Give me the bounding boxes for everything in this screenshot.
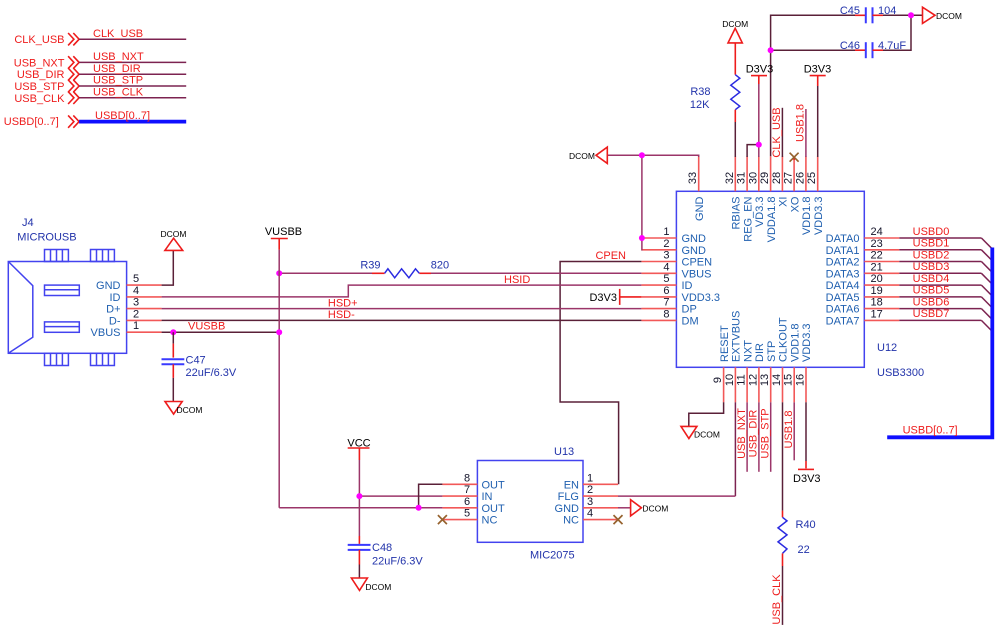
- svg-text:DATA2: DATA2: [826, 257, 860, 269]
- svg-text:ID: ID: [110, 292, 121, 304]
- U12 pin 5 ID: [641, 273, 692, 292]
- wire C46 right up to C45: [883, 15, 911, 50]
- svg-text:EXTVBUS: EXTVBUS: [731, 311, 743, 362]
- svg-text:1: 1: [587, 472, 593, 484]
- U12 pin 17 DATA7: [826, 308, 900, 327]
- svg-text:6: 6: [663, 285, 669, 297]
- svg-text:USB_STP: USB_STP: [760, 408, 772, 458]
- U12 pin 8 DM: [641, 308, 698, 327]
- svg-text:3: 3: [133, 297, 139, 309]
- svg-text:STP: STP: [766, 341, 778, 362]
- svg-text:3: 3: [663, 250, 669, 262]
- svg-text:VUSBB: VUSBB: [265, 226, 302, 238]
- svg-text:USB1.8: USB1.8: [783, 411, 795, 449]
- bus USBD[0..7] right: [887, 248, 992, 438]
- svg-text:4: 4: [133, 285, 139, 297]
- svg-text:D+: D+: [106, 304, 120, 316]
- ground DCOM right arrow top: [923, 7, 962, 23]
- wire C47 to DCOM: [172, 364, 174, 401]
- svg-text:USBD2: USBD2: [913, 249, 950, 261]
- wire VDDA1.8 pin29 vertical: [771, 15, 855, 156]
- U12 pin 20 DATA4: [826, 273, 900, 292]
- wire USBD0: [899, 226, 992, 249]
- U12 pin 6 VDD3.3: [641, 285, 720, 304]
- resistor R39 820: [360, 260, 449, 278]
- svg-text:D3V3: D3V3: [589, 292, 617, 304]
- power D3V3 top right: [804, 64, 832, 86]
- wire USBD1: [899, 238, 992, 261]
- U12 pin 32 RBIAS: [724, 156, 743, 229]
- svg-text:USBD3: USBD3: [913, 261, 950, 273]
- wire VCC to C48: [358, 536, 360, 544]
- svg-text:32: 32: [724, 172, 736, 184]
- resistor R38 12K: [690, 43, 740, 122]
- no-connect X at U13 pin4: [614, 515, 623, 524]
- power D3V3 at pin16: [793, 402, 821, 485]
- wire net USB_STP: [79, 75, 186, 87]
- svg-text:5: 5: [133, 273, 139, 285]
- wire D3V3 to pin30: [758, 84, 760, 157]
- ground DCOM above R38: [722, 19, 748, 43]
- wire DCOM net to pin33: [607, 155, 698, 250]
- svg-text:USB_STP: USB_STP: [93, 75, 143, 87]
- svg-text:USBD7: USBD7: [913, 308, 950, 320]
- wire C46 branch: [771, 49, 855, 51]
- svg-text:USBD[0..7]: USBD[0..7]: [4, 116, 59, 128]
- wire USBD3: [899, 261, 992, 284]
- svg-text:HSID: HSID: [504, 274, 530, 286]
- power VUSBB symbol: [265, 226, 302, 250]
- wire USB_NXT net at pin11: [736, 402, 748, 472]
- port USB_STP: [14, 80, 79, 93]
- wire HSD- net (J4 D- to pin8 DM): [162, 309, 642, 321]
- svg-text:NC: NC: [482, 515, 498, 527]
- wire net CLK_USB: [79, 28, 186, 40]
- svg-text:USB_DIR: USB_DIR: [93, 63, 141, 75]
- U13 pin 8 OUT: [442, 472, 505, 491]
- no-connect X at U13 pin5: [438, 515, 447, 524]
- svg-text:2: 2: [587, 484, 593, 496]
- J4 pin 3 D+: [106, 297, 161, 316]
- svg-text:USBD4: USBD4: [913, 273, 950, 285]
- svg-text:GND: GND: [96, 280, 121, 292]
- svg-text:26: 26: [794, 172, 806, 184]
- U13 pin 7 IN: [442, 484, 492, 503]
- svg-text:DM: DM: [682, 315, 699, 327]
- port USB_NXT: [14, 56, 79, 69]
- svg-text:CLK_USB: CLK_USB: [93, 28, 143, 40]
- U12 pin 13 STP: [759, 341, 778, 403]
- svg-text:XI: XI: [778, 197, 790, 207]
- U12 pin 3 CPEN: [641, 250, 712, 269]
- svg-text:R39: R39: [360, 260, 380, 272]
- svg-text:XO: XO: [789, 196, 801, 212]
- svg-text:RBIAS: RBIAS: [731, 197, 743, 230]
- svg-text:22uF/6.3V: 22uF/6.3V: [186, 367, 237, 379]
- svg-text:17: 17: [871, 308, 883, 320]
- U12 pin 19 DATA5: [826, 285, 900, 304]
- svg-text:ID: ID: [682, 280, 693, 292]
- svg-text:VDD3.3: VDD3.3: [813, 197, 825, 236]
- ground DCOM below C48: [351, 578, 391, 592]
- svg-text:20: 20: [871, 273, 883, 285]
- svg-text:GND: GND: [555, 503, 580, 515]
- svg-text:10: 10: [724, 374, 736, 386]
- capacitor C47 22uF/6.3V: [162, 355, 237, 379]
- wire VCC vertical: [358, 460, 360, 536]
- svg-text:USBD5: USBD5: [913, 285, 950, 297]
- svg-text:U12: U12: [877, 342, 897, 354]
- U12 pin 33 GND: [687, 156, 706, 221]
- wire net USB_CLK: [79, 87, 186, 99]
- svg-text:GND: GND: [682, 233, 707, 245]
- port USBD[0..7]: [4, 115, 79, 128]
- ground DCOM below C47: [165, 402, 202, 416]
- svg-text:USB_CLK: USB_CLK: [14, 93, 65, 105]
- svg-text:CPEN: CPEN: [682, 257, 713, 269]
- wire VUSBB to R39: [279, 272, 372, 274]
- junction REG_EN/D3V3: [756, 142, 762, 148]
- wire USBD2: [899, 249, 992, 272]
- svg-text:NC: NC: [563, 515, 579, 527]
- port CLK_USB: [14, 33, 79, 46]
- svg-text:DCOM: DCOM: [177, 405, 203, 415]
- svg-text:MICROUSB: MICROUSB: [17, 232, 76, 244]
- wire D3V3 to pin25: [817, 86, 819, 157]
- svg-text:DATA1: DATA1: [826, 245, 860, 257]
- svg-text:DCOM: DCOM: [642, 504, 668, 514]
- U12 pin 23 DATA1: [826, 238, 900, 257]
- svg-text:DCOM: DCOM: [161, 229, 187, 239]
- svg-text:2: 2: [133, 308, 139, 320]
- svg-text:USBD6: USBD6: [913, 296, 950, 308]
- U12 pin 2 GND: [641, 238, 706, 257]
- U12 pin 24 DATA0: [826, 226, 900, 245]
- svg-text:USB1.8: USB1.8: [795, 104, 807, 142]
- junction OUT: [416, 505, 422, 511]
- wire J4 GND to DCOM: [162, 250, 174, 285]
- svg-text:1: 1: [133, 320, 139, 332]
- svg-text:24: 24: [871, 226, 883, 238]
- svg-text:USB_NXT: USB_NXT: [736, 408, 748, 459]
- svg-text:CLKOUT: CLKOUT: [778, 317, 790, 362]
- U12 pin 7 DP: [641, 297, 696, 316]
- svg-text:VDD1.8: VDD1.8: [801, 197, 813, 236]
- U12 pin 11 NXT: [736, 340, 755, 403]
- svg-text:23: 23: [871, 238, 883, 250]
- U13 pin 6 OUT: [442, 496, 505, 515]
- U12 pin 14 CLKOUT: [771, 317, 790, 402]
- capacitor C46 4.7uF: [840, 40, 907, 58]
- svg-text:USBD[0..7]: USBD[0..7]: [95, 110, 150, 122]
- svg-text:8: 8: [464, 472, 470, 484]
- U12 pin 16 VDD3.3: [795, 323, 814, 402]
- svg-text:VBUS: VBUS: [91, 327, 121, 339]
- svg-text:31: 31: [736, 172, 748, 184]
- svg-text:DATA7: DATA7: [826, 315, 860, 327]
- bus USBD[0..7] top-left: [79, 110, 186, 122]
- U12 pin 9 RESET: [712, 325, 731, 402]
- svg-text:FLG: FLG: [558, 491, 579, 503]
- svg-text:D-: D-: [109, 315, 121, 327]
- svg-text:REG_EN: REG_EN: [742, 196, 754, 241]
- junction C45/C46: [908, 12, 914, 18]
- power D3V3 top left: [746, 64, 774, 84]
- junction pin29/C46: [768, 47, 774, 53]
- svg-text:33: 33: [687, 172, 699, 184]
- svg-text:CLK_USB: CLK_USB: [14, 34, 64, 46]
- svg-text:5: 5: [663, 273, 669, 285]
- wire VCC to U13 IN: [359, 495, 442, 497]
- svg-text:14: 14: [771, 374, 783, 386]
- U13 pin 3 GND: [555, 496, 618, 515]
- ground DCOM at U13 GND: [618, 500, 668, 516]
- J4 pin 5 GND: [96, 273, 162, 292]
- svg-text:DATA0: DATA0: [826, 233, 860, 245]
- svg-text:7: 7: [464, 484, 470, 496]
- port USB_CLK: [14, 92, 79, 105]
- svg-text:12K: 12K: [690, 99, 710, 111]
- svg-text:1: 1: [663, 226, 669, 238]
- svg-text:USB_CLK: USB_CLK: [771, 574, 783, 625]
- svg-text:DIR: DIR: [754, 343, 766, 362]
- ground DCOM below pin9: [681, 426, 720, 439]
- svg-text:22: 22: [798, 544, 810, 556]
- svg-text:13: 13: [759, 374, 771, 386]
- svg-text:VDDA1.8: VDDA1.8: [766, 197, 778, 243]
- svg-text:30: 30: [747, 172, 759, 184]
- ground DCOM left arrow: [569, 147, 607, 163]
- port USB_DIR: [17, 68, 79, 81]
- wire USBD6: [899, 296, 992, 319]
- U12 pin 18 DATA6: [826, 297, 900, 316]
- svg-text:MIC2075: MIC2075: [530, 550, 575, 562]
- svg-text:D3V3: D3V3: [804, 64, 832, 76]
- resistor R40 22: [778, 511, 816, 566]
- wire VUSBB vertical: [278, 250, 280, 508]
- svg-text:RESET: RESET: [719, 325, 731, 362]
- junction VCC: [356, 493, 362, 499]
- svg-text:DATA6: DATA6: [826, 304, 860, 316]
- wire VUSBB to U13 OUT: [279, 507, 442, 509]
- svg-text:18: 18: [871, 297, 883, 309]
- svg-text:16: 16: [795, 374, 807, 386]
- U12 pin 26 VDD1.8: [794, 156, 813, 235]
- svg-text:21: 21: [871, 261, 883, 273]
- wire HSD+ net (J4 D+ to pin7 DP): [162, 297, 642, 309]
- svg-text:USB3300: USB3300: [877, 367, 924, 379]
- junction VUSBB/VBUS: [276, 329, 282, 335]
- svg-text:8: 8: [663, 308, 669, 320]
- U12 pin 22 DATA2: [826, 250, 900, 269]
- svg-text:DCOM: DCOM: [936, 11, 962, 21]
- ground DCOM up arrow at J4: [161, 229, 187, 250]
- no-connect X at pin27 XO: [790, 153, 799, 162]
- svg-text:25: 25: [806, 172, 818, 184]
- capacitor C45 104: [840, 5, 897, 23]
- svg-text:2: 2: [663, 238, 669, 250]
- svg-text:C46: C46: [840, 40, 860, 52]
- wire USB_STP net at pin13: [760, 402, 772, 472]
- svg-text:4: 4: [587, 508, 593, 520]
- svg-text:11: 11: [736, 374, 748, 385]
- U12 pin 27 XO: [783, 156, 802, 212]
- U12 pin 30 VD3.3: [747, 156, 766, 227]
- svg-text:DATA4: DATA4: [826, 280, 860, 292]
- wire USBD5: [899, 285, 992, 308]
- svg-text:3: 3: [587, 496, 593, 508]
- svg-text:GND: GND: [694, 196, 706, 221]
- svg-text:6: 6: [464, 496, 470, 508]
- svg-text:NXT: NXT: [742, 340, 754, 362]
- wire VBUS J4 pin1 to VUSBB: [162, 321, 280, 333]
- svg-text:VDD3.3: VDD3.3: [801, 323, 813, 362]
- U12 pin 21 DATA3: [826, 261, 900, 280]
- wire USB1.8 net at pin26: [795, 104, 807, 157]
- power VCC symbol: [347, 438, 370, 461]
- U13 pin 1 EN: [564, 472, 618, 491]
- svg-text:C48: C48: [372, 542, 392, 554]
- svg-text:USBD[0..7]: USBD[0..7]: [903, 425, 958, 437]
- svg-text:820: 820: [431, 260, 449, 272]
- svg-text:DP: DP: [682, 304, 697, 316]
- U12 pin 31 REG_EN: [736, 156, 755, 241]
- svg-text:12: 12: [747, 374, 759, 386]
- wire EXTVBUS pin10 to U13 FLG: [618, 402, 735, 496]
- wire VBUS row from R39: [420, 272, 641, 274]
- wire USB_CLK net below R40: [771, 566, 783, 625]
- svg-text:DATA5: DATA5: [826, 292, 860, 304]
- wire net USB_DIR: [79, 63, 186, 75]
- J4 pin 2 D-: [109, 308, 162, 327]
- svg-text:OUT: OUT: [482, 503, 506, 515]
- svg-text:R40: R40: [796, 519, 816, 531]
- svg-text:C47: C47: [186, 355, 206, 367]
- svg-text:VDD1.8: VDD1.8: [789, 323, 801, 362]
- junction near pin33: [639, 152, 645, 158]
- svg-text:USB_DIR: USB_DIR: [17, 69, 65, 81]
- svg-text:GND: GND: [682, 245, 707, 257]
- svg-text:DCOM: DCOM: [569, 151, 595, 161]
- wire OUT pins jumper: [419, 484, 443, 508]
- wire R38 to pin32: [734, 122, 736, 157]
- wire HSID net (J4 ID to pin5): [162, 274, 642, 297]
- svg-text:22: 22: [871, 250, 883, 262]
- svg-text:7: 7: [663, 297, 669, 309]
- svg-text:5: 5: [464, 508, 470, 520]
- U13 pin 2 FLG: [558, 484, 618, 503]
- U12 pin 15 VDD1.8: [783, 323, 802, 402]
- connector J4 MICROUSB: [8, 217, 126, 366]
- svg-text:27: 27: [783, 172, 795, 184]
- svg-text:R38: R38: [690, 86, 710, 98]
- wire C45 to DCOM junction: [883, 14, 923, 16]
- svg-text:IN: IN: [482, 491, 493, 503]
- wire CLKOUT pin14 to R40: [782, 402, 784, 510]
- wire USBD7: [899, 308, 992, 331]
- svg-text:J4: J4: [22, 217, 34, 229]
- wire CPEN net (pin3 to U13 EN): [560, 250, 641, 484]
- IC U12 USB3300 body: [676, 191, 924, 379]
- junction pin1: [639, 235, 645, 241]
- U12 pin 1 GND: [641, 226, 706, 245]
- svg-text:VD3.3: VD3.3: [754, 197, 766, 228]
- svg-text:DATA3: DATA3: [826, 268, 860, 280]
- capacitor C48 22uF/6.3V: [348, 542, 424, 567]
- wire net USB_NXT: [79, 51, 186, 63]
- svg-text:CPEN: CPEN: [595, 250, 626, 262]
- wire USBD4: [899, 273, 992, 296]
- svg-text:CLK_USB: CLK_USB: [771, 107, 783, 157]
- power D3V3 at pin6: [589, 289, 641, 305]
- svg-text:OUT: OUT: [482, 479, 506, 491]
- junction VUSBB/R39: [276, 270, 282, 276]
- wire pin1 tap: [641, 237, 644, 239]
- U12 pin 25 VDD3.3: [806, 156, 825, 235]
- svg-text:VDD3.3: VDD3.3: [682, 292, 721, 304]
- wire VBUS to C47: [172, 332, 174, 357]
- svg-text:USB_CLK: USB_CLK: [93, 87, 144, 99]
- svg-text:VUSBB: VUSBB: [188, 321, 225, 333]
- wire REG_EN pin31 to D3V3: [747, 145, 759, 157]
- svg-text:DCOM: DCOM: [365, 582, 391, 592]
- svg-text:USBD0: USBD0: [913, 226, 950, 238]
- svg-text:HSD-: HSD-: [328, 309, 355, 321]
- U12 pin 12 DIR: [747, 343, 766, 402]
- svg-text:15: 15: [783, 374, 795, 386]
- J4 pin 4 ID: [110, 285, 162, 304]
- svg-text:EN: EN: [564, 479, 579, 491]
- IC U13 MIC2075 body: [477, 446, 583, 562]
- svg-text:USB_NXT: USB_NXT: [14, 57, 65, 69]
- svg-text:USB_NXT: USB_NXT: [93, 51, 144, 63]
- svg-text:U13: U13: [554, 446, 574, 458]
- svg-text:USB_DIR: USB_DIR: [748, 410, 760, 458]
- wire USB_DIR net at pin12: [748, 402, 760, 472]
- svg-text:4: 4: [663, 261, 669, 273]
- U12 pin 4 VBUS: [641, 261, 711, 280]
- U13 pin 4 NC: [563, 508, 618, 527]
- svg-text:9: 9: [712, 377, 724, 383]
- svg-text:28: 28: [771, 172, 783, 184]
- svg-text:D3V3: D3V3: [793, 473, 821, 485]
- svg-text:HSD+: HSD+: [328, 297, 358, 309]
- wire C48 to DCOM: [358, 550, 360, 578]
- wire RESET pin9 to DCOM: [689, 402, 724, 426]
- wire CLK_USB net at pin28 XI: [771, 107, 783, 157]
- svg-text:VBUS: VBUS: [682, 268, 712, 280]
- junction C47 tap: [170, 329, 176, 335]
- wire USB1.8 net at pin15: [783, 402, 795, 460]
- U12 pin 29 VDDA1.8: [759, 156, 778, 242]
- svg-text:D3V3: D3V3: [746, 64, 774, 76]
- U12 pin 28 XI: [771, 156, 790, 207]
- svg-text:19: 19: [871, 285, 883, 297]
- svg-text:DCOM: DCOM: [694, 430, 720, 440]
- svg-text:C45: C45: [840, 5, 860, 17]
- U13 pin 5 NC: [442, 508, 497, 527]
- svg-text:29: 29: [759, 172, 771, 184]
- U12 pin 10 EXTVBUS: [724, 311, 743, 403]
- svg-text:USBD1: USBD1: [913, 238, 950, 250]
- svg-text:22uF/6.3V: 22uF/6.3V: [372, 555, 423, 567]
- J4 pin 1 VBUS: [91, 320, 162, 339]
- svg-text:USB_STP: USB_STP: [14, 81, 64, 93]
